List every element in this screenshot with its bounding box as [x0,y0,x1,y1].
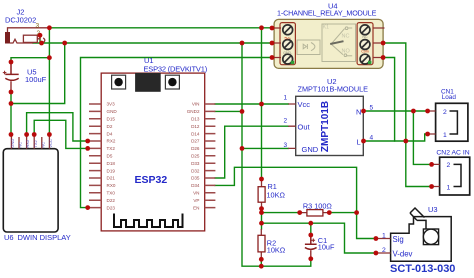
clamp arm [410,208,426,229]
optocoupler symbol [297,40,320,55]
wire ZMPT GND [242,147,288,149]
svg-text:NO: NO [342,49,351,55]
svg-text:NC: NC [40,142,45,148]
svg-text:RX0: RX0 [107,183,116,188]
svg-text:D22: D22 [107,198,116,203]
svg-text:D18: D18 [107,161,116,166]
junction (310.8,223.2) [308,221,313,226]
svg-text:D5: D5 [107,154,113,159]
svg-text:1: 1 [443,132,447,139]
svg-text:NC: NC [18,142,23,148]
svg-text:RX2: RX2 [25,139,30,148]
svg-text:SCT-013-030: SCT-013-030 [390,263,455,275]
junction (299.7,212.6) [297,210,302,215]
wire relay Com to CN2 pin1 [383,43,432,187]
junction (242,148.4) [240,146,245,151]
svg-text:Com: Com [361,49,369,53]
svg-text:NC: NC [342,34,350,40]
junction (329.3,212.6) [327,210,332,215]
resistor R2 10K [258,229,286,259]
svg-text:GND: GND [302,145,319,154]
svg-text:L: L [357,137,361,146]
MCU U1 ESP32 (DEVKITV1) [89,56,215,231]
wire 5V top rail A [49,27,272,29]
resistor R3 100 [300,201,333,216]
svg-text:10KΩ: 10KΩ [267,190,286,199]
svg-text:1: 1 [284,95,288,102]
svg-text:2: 2 [382,247,386,254]
wire D23 to relay IN (C) [81,58,273,208]
junction (11,92) [9,90,14,95]
junction (383.1,43) [381,41,386,46]
junction (375.9,238.5) [374,236,379,241]
svg-text:Load: Load [442,94,457,101]
capacitor U5 100uF [3,62,19,92]
junction (261.3,259.3) [259,257,264,262]
junction (26.6,134.5) [24,132,29,137]
junction (413.4,111) [411,109,416,114]
junction (363.5,111) [361,109,366,114]
svg-text:1: 1 [382,233,386,240]
svg-text:10uF: 10uF [318,243,335,252]
svg-text:3V3: 3V3 [107,102,116,107]
svg-text:1-CHANNEL_RELAY_MODULE: 1-CHANNEL_RELAY_MODULE [277,9,377,18]
svg-text:VP: VP [193,198,199,203]
svg-text:Vcc: Vcc [298,100,311,109]
junction (261.5,104) [259,102,264,107]
junction (261.5,179) [259,177,264,182]
svg-text:D19: D19 [107,168,116,173]
svg-text:D12: D12 [191,124,200,129]
antenna crenellation [114,214,183,228]
junction (242,43) [240,41,245,46]
svg-text:TX0: TX0 [107,191,116,196]
junction (272,57.5) [270,55,275,60]
svg-text:D26: D26 [191,146,200,151]
connector CN2 AC IN [432,149,470,195]
svg-text:R3 100Ω: R3 100Ω [303,201,333,210]
junction (356.6,212.6) [354,210,359,215]
junction (431.6,164.4) [429,162,434,167]
module U2 ZMPT101B [284,77,374,156]
svg-text:TX2: TX2 [107,146,116,151]
junction (49.4,27.8) [47,25,52,30]
svg-text:3: 3 [36,23,40,30]
svg-text:D15: D15 [107,117,116,122]
wire GND vertical and bottom rail [242,43,311,266]
svg-text:10KΩ: 10KΩ [267,246,286,255]
junction (49.4,57.7) [47,55,52,60]
svg-text:D33: D33 [191,161,200,166]
resistor R1 10K [258,180,285,209]
usb shield [135,73,161,92]
junction (40,35.3) [38,33,43,38]
junction (272,43) [270,41,275,46]
junction (405.8,141) [403,139,408,144]
svg-text:CN2 AC IN: CN2 AC IN [436,149,469,156]
svg-text:D25: D25 [191,154,200,159]
wire 5V branch to U5/display pin6 [11,28,49,135]
svg-text:GND-: GND- [283,51,293,55]
svg-text:Out: Out [298,123,311,132]
svg-text:1: 1 [447,184,451,191]
ESP32 pin stubs [89,104,215,208]
junction (427.6,134) [425,132,430,137]
svg-text:GND: GND [10,139,15,148]
svg-text:N: N [356,107,361,116]
svg-text:VIN: VIN [192,102,200,107]
wire jack pin2 drop [39,35,41,43]
svg-text:2: 2 [443,109,447,116]
svg-text:RX2: RX2 [107,139,116,144]
wire neutral to CN2 pin2 [413,111,431,164]
svg-text:D14: D14 [191,131,200,136]
junction (87.7,141) [85,139,90,144]
svg-text:U6: U6 [4,233,14,242]
junction (310.8,235) [308,233,313,238]
junction (261.5,27.8) [259,25,264,30]
junction (310.8,258.8) [308,256,313,261]
junction (383.1,57.5) [381,55,386,60]
wire 5V vertical to R1 top [261,28,263,179]
svg-text:ESP32 (DEVKITV1): ESP32 (DEVKITV1) [144,64,208,73]
junction (272,28) [270,26,275,31]
svg-text:VCC: VCC [48,139,53,148]
svg-text:D21: D21 [107,176,116,181]
button BOOT [165,75,179,89]
wire cap bottom to display pin1 and GND link [11,43,65,135]
junction (363.5,141) [361,139,366,144]
svg-text:NC: NC [362,35,368,39]
svg-text:100uF: 100uF [25,75,47,84]
svg-text:DWIN DISPLAY: DWIN DISPLAY [18,233,71,242]
core square and circle [423,229,438,245]
junction (261.3,266.2) [259,264,264,269]
wire R2 bottom [260,259,262,266]
wire D34 to R3 right and U3 Sig [215,167,376,238]
wire VIN to ZMPT Vcc [215,103,288,105]
wire GND rail B [33,42,272,44]
svg-text:V-dev: V-dev [393,249,413,258]
svg-text:Sig: Sig [393,235,404,244]
wire R3 right [329,212,356,214]
svg-text:K1: K1 [323,25,329,31]
svg-text:U3: U3 [428,205,438,214]
svg-text:D4: D4 [107,131,113,136]
relay K1 symbol [322,24,356,62]
sensor U3 SCT-013-030 [376,205,456,275]
svg-text:GND2: GND2 [187,109,200,114]
junction (41.5,43) [39,41,44,46]
screw terminals [283,25,370,64]
svg-text:4: 4 [370,135,374,142]
junction (64.7,43) [62,41,67,46]
svg-text:D2: D2 [107,124,113,129]
wire GND2 to GND vertical [215,110,242,112]
wire D35 to ZMPT Out [215,126,288,178]
capacitor C1 10uF [305,235,317,259]
svg-text:2: 2 [447,162,451,169]
svg-text:DCJ0202: DCJ0202 [5,16,36,25]
wire ZMPT L to CN1 pin1 [364,134,428,141]
svg-text:D35: D35 [191,176,200,181]
wire C1 top pin [310,223,312,235]
svg-text:VN: VN [193,191,199,196]
wire divider to C1 top and V-dev [262,223,376,253]
svg-text:D13: D13 [191,117,200,122]
ESP32 pin labels [107,102,200,211]
svg-text:ZMPT101B-MODULE: ZMPT101B-MODULE [298,85,369,94]
junction (431.6,186.5) [429,184,434,189]
display pin labels [10,139,53,148]
svg-text:ZMPT101B: ZMPT101B [320,101,331,152]
junction (11,62) [9,60,14,65]
junction (427.6,111) [425,109,430,114]
relay pin stubs left [272,28,385,58]
svg-text:ESP32: ESP32 [135,174,168,186]
wire TX2 to display pin4 [34,120,87,148]
junction (261.5,208.6) [259,206,264,211]
svg-text:D27: D27 [191,139,200,144]
junction (242,111.4) [240,109,245,114]
junction (375.9,253) [374,251,379,256]
svg-text:D23: D23 [107,205,116,210]
svg-text:5V+: 5V+ [284,36,291,40]
ZMPT pin stubs [288,104,295,148]
wire R1 bottom to R2 top [261,209,263,229]
svg-text:5: 5 [370,104,374,111]
junction (11,103.5) [9,101,14,106]
svg-text:D32: D32 [191,168,200,173]
junction (261.5,223.2) [259,221,264,226]
svg-text:EN: EN [193,205,199,210]
connector CN1 Load [428,88,468,141]
wire relay NO down to L net [383,58,395,142]
junction (34.2,134.5) [32,132,37,137]
svg-text:TX2: TX2 [33,139,38,147]
junction (87.7,207.6) [85,205,90,210]
svg-text:D34: D34 [191,183,200,188]
junction (11,134.5) [9,132,14,137]
U3 pin stubs [376,239,391,254]
wire R3 left [262,212,300,214]
junction (261.5,212.6) [259,210,264,215]
connector J2 DCJ0202 [5,28,49,44]
junction (49.4,134.5) [47,132,52,137]
display U6 DWIN DISPLAY [3,135,70,242]
wire RX2 to display pin3 [27,113,88,141]
relay terminal block right [357,23,373,65]
svg-text:GND: GND [107,109,118,114]
button EN [112,75,126,89]
display pin stubs [11,135,49,149]
wire ZMPT N to CN1 pin2 [364,110,428,112]
relay module U4 [272,2,385,69]
junction (87.7,148.4) [85,146,90,151]
svg-text:2: 2 [284,118,288,125]
svg-text:3: 3 [284,142,288,149]
relay terminal block left [280,23,295,65]
